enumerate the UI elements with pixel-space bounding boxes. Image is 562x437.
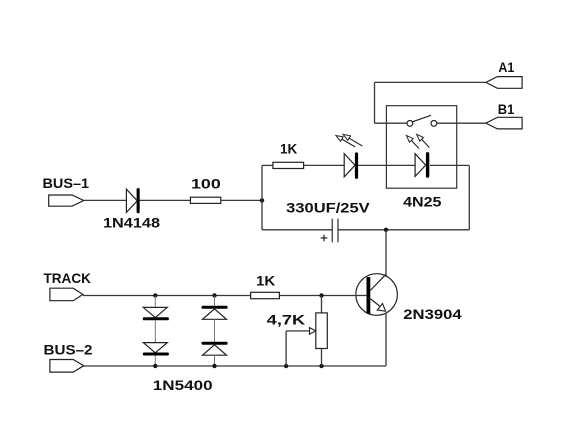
wire LED1 to opto	[358, 164, 415, 166]
wire D2 top	[154, 296, 156, 308]
wire D2 to D3	[154, 320, 156, 342]
wire D4 to D5	[214, 319, 216, 341]
resistor R3 1K	[251, 292, 280, 298]
wire TRACK rail	[83, 295, 251, 297]
connector BUS-2	[50, 360, 84, 373]
diode D2	[143, 307, 169, 320]
wire BUS-1 to D1	[84, 199, 127, 201]
opto switch contact right	[431, 121, 437, 127]
wire node A to R2	[262, 164, 273, 166]
connector BUS-1	[49, 195, 84, 206]
capacitor C1 plus sign	[321, 235, 328, 242]
node A junction	[260, 198, 264, 202]
wire R1 to node A	[221, 199, 262, 201]
capacitor C1 plate right	[337, 219, 339, 243]
svg-text:1N4148: 1N4148	[103, 215, 160, 231]
svg-text:2N3904: 2N3904	[403, 306, 462, 322]
connector TRACK	[50, 288, 83, 301]
svg-text:BUS–2: BUS–2	[44, 342, 93, 358]
wire wiper vertical	[285, 331, 287, 366]
svg-text:330UF/25V: 330UF/25V	[286, 199, 370, 215]
opto LED	[406, 134, 429, 177]
node G junction	[212, 364, 216, 368]
wire opto to right vertical	[430, 164, 469, 166]
opto switch contact left	[407, 121, 413, 127]
node C junction	[153, 293, 157, 297]
opto switch lever	[412, 115, 431, 122]
connector A1	[486, 77, 522, 89]
wire D5 bottom	[214, 355, 216, 366]
diode D4	[202, 306, 228, 320]
svg-text:1K: 1K	[256, 273, 275, 289]
svg-text:4,7K: 4,7K	[267, 312, 306, 328]
LED D6	[336, 134, 362, 179]
diode D3	[143, 343, 169, 356]
wire cap left	[262, 229, 332, 231]
wire node A up	[261, 165, 263, 200]
wire A1 horizontal	[375, 81, 486, 83]
capacitor C1 plate left	[331, 219, 333, 243]
wire cap right	[338, 229, 469, 231]
wire pot bottom	[321, 349, 323, 367]
wire BUS-2 rail	[84, 365, 386, 367]
node E junction	[319, 293, 323, 297]
svg-text:BUS–1: BUS–1	[43, 175, 90, 191]
wire box left to contact	[375, 122, 408, 124]
svg-text:A1: A1	[498, 59, 514, 75]
wire D4 top	[214, 296, 216, 306]
diode D1	[126, 188, 139, 213]
potentiometer R4 4,7K	[316, 313, 328, 349]
transistor Q1 2N3904	[356, 274, 398, 316]
svg-text:1N5400: 1N5400	[153, 377, 213, 393]
resistor R2 1K	[273, 162, 304, 168]
svg-text:B1: B1	[498, 101, 515, 117]
node B junction	[384, 228, 388, 232]
optocoupler U1 4N25 box	[386, 106, 456, 189]
svg-text:1K: 1K	[280, 141, 297, 157]
wire right vertical	[468, 165, 470, 229]
wire D1 to R1	[140, 199, 191, 201]
svg-text:100: 100	[191, 176, 221, 192]
wire emitter vertical	[385, 313, 387, 366]
node I junction	[319, 364, 323, 368]
diode D5	[202, 342, 228, 356]
resistor R1 100	[190, 197, 220, 203]
node F junction	[153, 364, 157, 368]
wire D3 bottom	[154, 356, 156, 367]
connector B1	[486, 117, 522, 129]
wire A1 vertical	[374, 82, 376, 123]
node D junction	[212, 293, 216, 297]
wire node A down	[261, 200, 263, 229]
wire collector	[385, 230, 387, 277]
pot wiper arrow	[286, 328, 316, 335]
wire pot top	[321, 296, 323, 313]
node H junction	[284, 364, 288, 368]
wire R3 to base	[279, 295, 366, 297]
svg-text:TRACK: TRACK	[44, 270, 91, 286]
wire contact to B1	[437, 122, 486, 124]
wire R2 to LED1	[304, 164, 345, 166]
svg-text:4N25: 4N25	[403, 194, 442, 210]
